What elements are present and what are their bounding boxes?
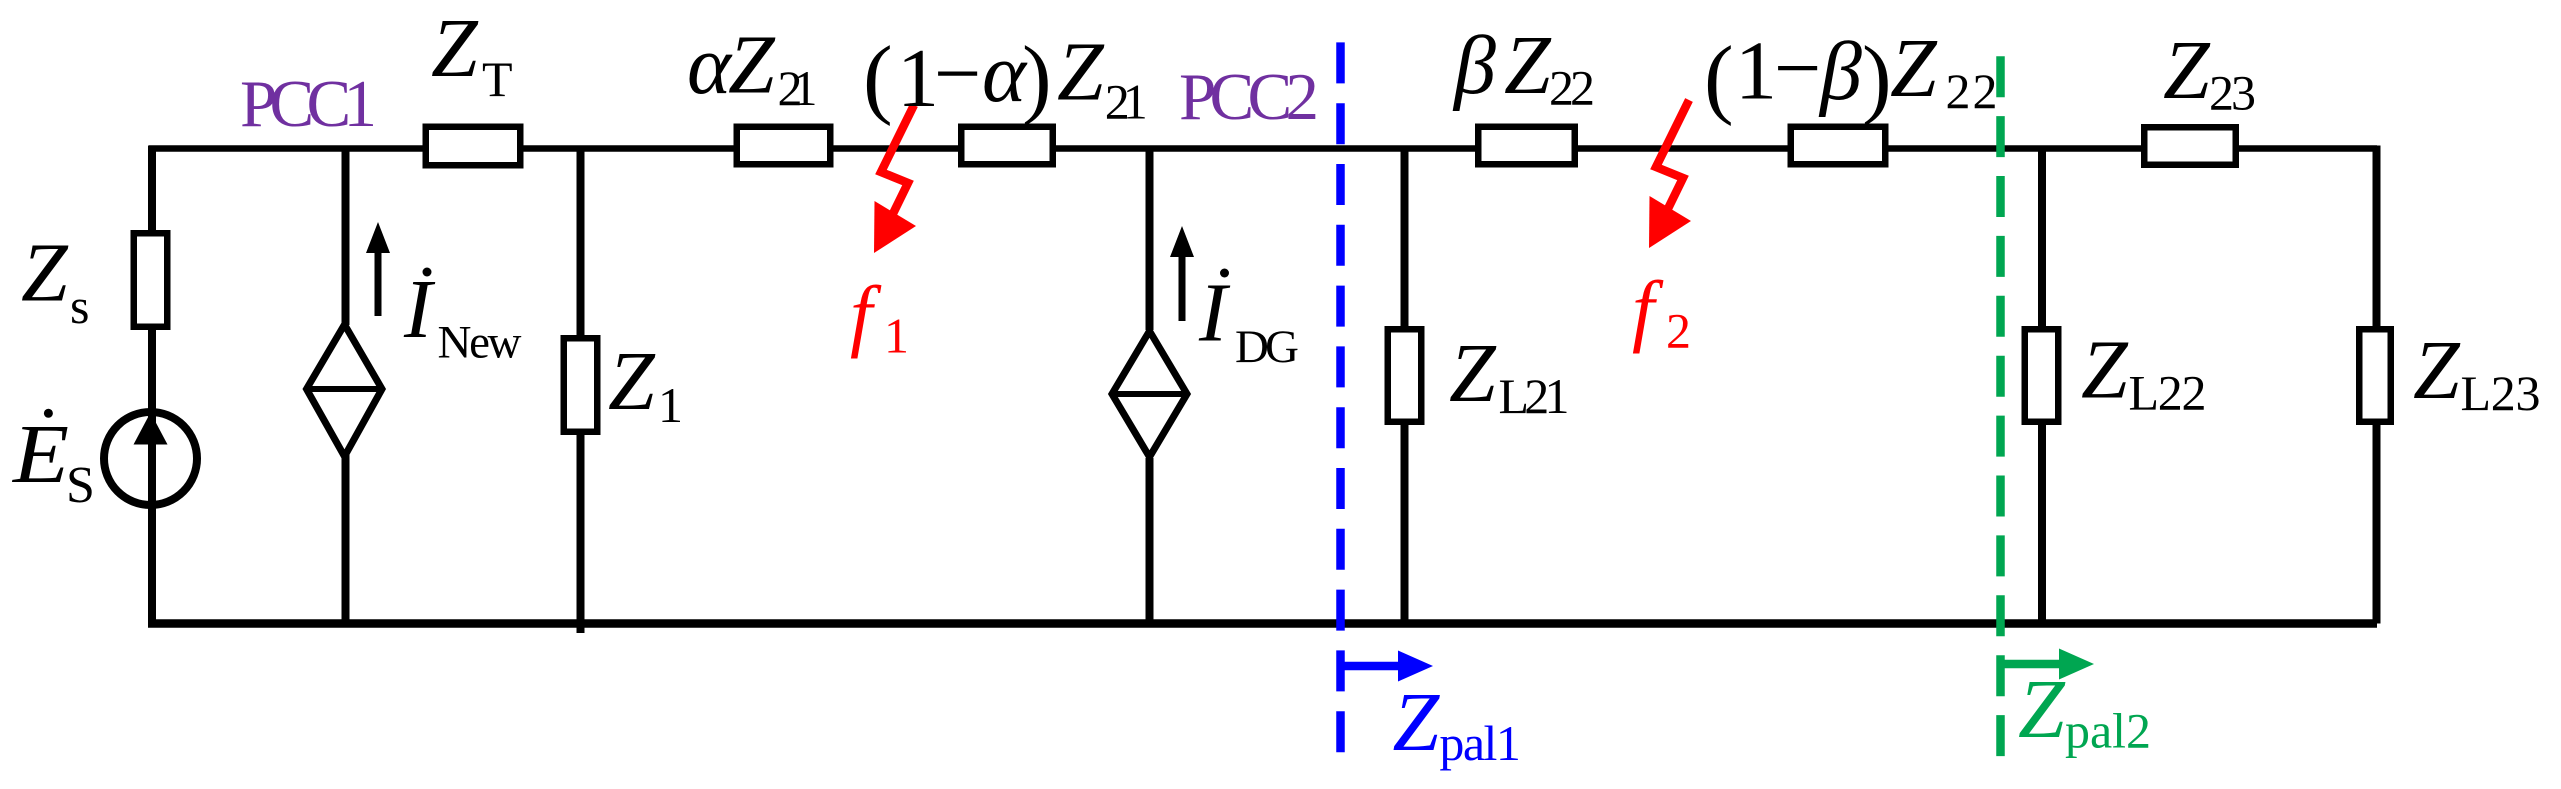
svg-text:L22: L22 (2129, 364, 2207, 420)
svg-text:Z: Z (1449, 327, 1497, 420)
source E_S (104, 412, 197, 505)
svg-text:I: I (403, 263, 436, 356)
resistor Z23 (2144, 127, 2236, 165)
svg-text:pal2: pal2 (2065, 703, 2151, 759)
wire left vertical (148, 146, 156, 628)
arrow I_New head (366, 222, 390, 253)
svg-text:1: 1 (897, 32, 939, 125)
svg-text:PCC1: PCC1 (240, 67, 377, 141)
wire bottom rail (148, 619, 2377, 628)
svg-text:): ) (1862, 29, 1892, 127)
fault bolt f2 (1656, 100, 1689, 223)
svg-text:Z: Z (2081, 324, 2129, 417)
resistor ZT (426, 127, 521, 166)
resistor beta-Z22 (1478, 127, 1575, 165)
svg-text:23: 23 (2209, 64, 2256, 120)
svg-text:−: − (1774, 22, 1821, 115)
svg-text:Z: Z (21, 227, 69, 320)
wire node PCC1 vertical upper (342, 149, 350, 326)
svg-text:): ) (1022, 29, 1052, 127)
svg-text:Z: Z (728, 18, 776, 111)
arrow Zpal1 (1341, 662, 1407, 671)
resistor ZL23 (2359, 329, 2391, 422)
resistor (1-beta)Z22 (1791, 127, 1886, 165)
svg-text:Z: Z (2163, 24, 2211, 117)
svg-text:DG: DG (1235, 321, 1299, 373)
current source I_New diamond (307, 325, 383, 457)
wire Z1 vertical (577, 149, 585, 634)
svg-text:pal1: pal1 (1439, 715, 1521, 771)
resistor Z1 (564, 338, 598, 432)
svg-text:L21: L21 (1499, 368, 1570, 424)
svg-text:Z: Z (2018, 663, 2066, 756)
svg-text:Z: Z (1504, 19, 1552, 112)
wire ZL21 vertical (1401, 149, 1409, 624)
resistor alpha-Z21 (737, 127, 831, 165)
svg-text:β: β (1452, 19, 1496, 112)
svg-text:s: s (70, 278, 89, 334)
wire node PCC1 vertical lower (342, 453, 350, 624)
dashed boundary Zpal1 (1336, 42, 1345, 752)
arrow I_New shaft (375, 250, 382, 316)
resistor (1-alpha)Z21 (961, 127, 1053, 165)
svg-text:21: 21 (778, 60, 818, 116)
svg-text:2: 2 (1666, 302, 1691, 358)
svg-text:1: 1 (1735, 25, 1777, 118)
resistor ZL22 (2025, 329, 2059, 422)
wire top rail (149, 145, 2377, 152)
wire node PCC2 vertical lower (1146, 458, 1154, 624)
arrow Zpal2 (2001, 660, 2067, 669)
resistor Zs (134, 233, 168, 327)
svg-text:(: ( (863, 29, 893, 127)
current source I_DG diamond (1112, 331, 1187, 457)
wire right vertical (2373, 146, 2381, 624)
svg-text:α: α (687, 19, 733, 112)
arrow E_S head (134, 413, 168, 445)
svg-text:22: 22 (1549, 60, 1595, 116)
svg-text:1: 1 (658, 377, 683, 433)
svg-text:New: New (438, 317, 522, 369)
svg-text:β: β (1818, 25, 1862, 118)
wire ZL22 vertical (2038, 149, 2046, 624)
arrow I_DG head (1170, 226, 1194, 257)
svg-text:1: 1 (884, 307, 909, 363)
svg-text:PCC2: PCC2 (1179, 60, 1319, 134)
svg-text:Z: Z (1890, 22, 1938, 115)
resistor ZL21 (1388, 329, 1422, 422)
svg-text:21: 21 (1105, 74, 1148, 130)
svg-text:I: I (1198, 267, 1231, 360)
svg-text:E: E (12, 408, 69, 501)
svg-text:Z: Z (2413, 324, 2461, 417)
svg-text:Z: Z (1393, 676, 1441, 769)
svg-text:T: T (482, 51, 513, 107)
svg-text:Z: Z (431, 2, 479, 95)
fault bolt f1 (881, 105, 914, 228)
svg-text:Z: Z (1057, 26, 1105, 119)
svg-text:Z: Z (608, 335, 656, 428)
svg-text:(: ( (1704, 29, 1734, 127)
arrow I_DG shaft (1179, 254, 1186, 321)
svg-text:S: S (66, 457, 95, 514)
dashed boundary Zpal2 (1996, 56, 2005, 757)
svg-text:−: − (934, 28, 981, 121)
svg-text:L23: L23 (2461, 365, 2541, 421)
wire node PCC2 vertical upper (1146, 149, 1154, 331)
